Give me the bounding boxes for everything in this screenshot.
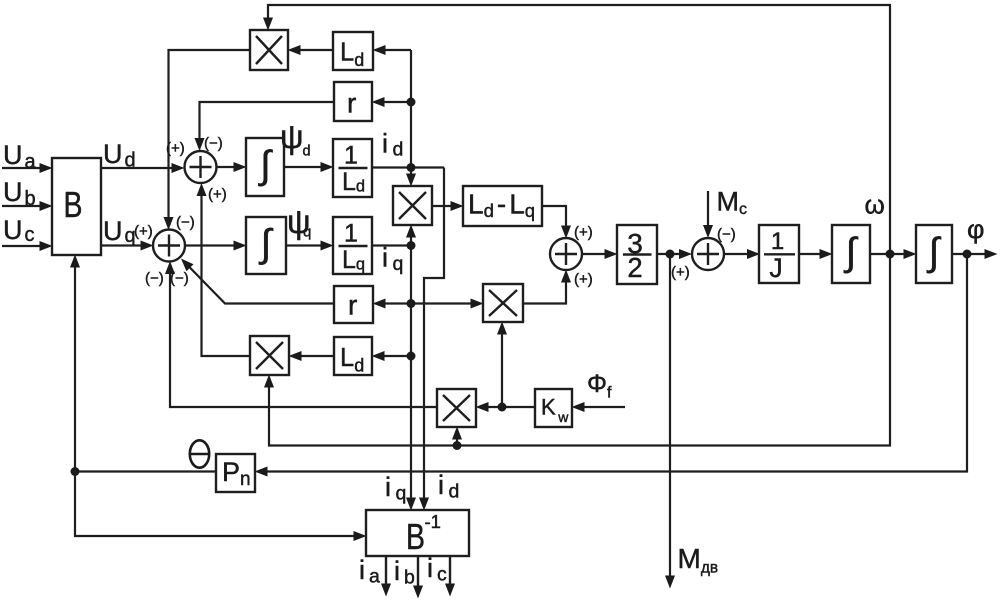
summing junction sum4 bbox=[692, 238, 724, 270]
wire Pn output theta bbox=[75, 470, 216, 472]
svg-text:Uq: Uq bbox=[103, 216, 136, 247]
block Ld minus Lq bbox=[463, 186, 542, 226]
svg-text:r: r bbox=[347, 88, 356, 119]
svg-text:(+): (+) bbox=[574, 224, 593, 241]
multiplier X3 bbox=[483, 284, 523, 322]
svg-text:(−): (−) bbox=[717, 226, 736, 243]
summing junction sum1 bbox=[185, 151, 217, 183]
block r2 bbox=[334, 286, 373, 323]
svg-text:(+): (+) bbox=[166, 140, 185, 157]
block B inverse bbox=[366, 510, 469, 557]
multiplier X4 bbox=[250, 336, 289, 375]
block Pn bbox=[216, 454, 255, 492]
integrator 2 bbox=[246, 217, 286, 274]
wire id 1/Ld output bbox=[372, 166, 444, 168]
svg-text:Uc: Uc bbox=[3, 215, 35, 246]
wire input Ua bbox=[2, 167, 40, 169]
wire 3/2 to sum4 bbox=[658, 253, 680, 255]
svg-text:Φf: Φf bbox=[587, 370, 612, 401]
svg-text:(−): (−) bbox=[145, 270, 164, 287]
svg-text:Ub: Ub bbox=[3, 177, 36, 210]
block 3/2 bbox=[617, 225, 657, 284]
wire input Mc into sum4 bbox=[707, 191, 709, 226]
wire Ld2 to mult4 bbox=[301, 355, 334, 357]
integrator 4 bbox=[916, 225, 952, 283]
svg-text:id: id bbox=[438, 470, 459, 502]
wire omega feedback top bbox=[268, 5, 890, 254]
wire mult5 output to sum2 bottom bbox=[170, 274, 437, 408]
svg-text:ω: ω bbox=[865, 190, 885, 220]
svg-text:r: r bbox=[348, 290, 357, 321]
svg-text:J: J bbox=[769, 253, 782, 283]
wire Binv output ia bbox=[385, 556, 387, 584]
node Kw output branch bbox=[498, 403, 507, 412]
integrator 1 bbox=[246, 138, 284, 196]
wire id down to Binv bbox=[424, 168, 444, 499]
wire mult3 output to sum3 bottom bbox=[523, 282, 566, 304]
svg-text:Mдв: Mдв bbox=[678, 543, 719, 576]
wire Kw to mult5 bbox=[488, 406, 535, 408]
svg-text:(+): (+) bbox=[134, 223, 153, 240]
block Ld lower bbox=[334, 337, 372, 376]
node omega rail mult5 tap bbox=[453, 441, 462, 450]
svg-text:-1: -1 bbox=[425, 511, 441, 532]
wire mult2 to LdLq block bbox=[432, 205, 451, 207]
wire phi feedback to Pn bbox=[267, 254, 967, 472]
svg-text:iq: iq bbox=[382, 243, 403, 275]
wire iq down to Binv bbox=[410, 246, 412, 499]
block B coordinate transform bbox=[52, 158, 101, 255]
multiplier X1 bbox=[250, 30, 288, 70]
svg-text:1: 1 bbox=[344, 142, 358, 170]
wire iq to r2 bbox=[385, 302, 411, 304]
wire id branch up-down rail bbox=[410, 50, 412, 174]
svg-text:id: id bbox=[382, 128, 403, 160]
block 1/Lq bbox=[333, 217, 372, 274]
svg-text:ψd: ψd bbox=[280, 118, 311, 160]
svg-text:Ud: Ud bbox=[103, 139, 136, 172]
wire Ld1 to mult1 bbox=[300, 49, 333, 51]
svg-text:(−): (−) bbox=[204, 135, 223, 152]
wire id to Ld1 bbox=[385, 49, 411, 51]
wire integrator1 to 1/Ld bbox=[285, 166, 321, 168]
wire sum2 to integrator2 bbox=[185, 244, 234, 246]
wire input Uc bbox=[2, 245, 40, 247]
svg-text:(+): (+) bbox=[574, 271, 593, 288]
wire theta down to Binv bbox=[75, 472, 354, 537]
svg-text:1: 1 bbox=[771, 228, 784, 255]
block r1 bbox=[334, 82, 372, 121]
svg-text:ψq: ψq bbox=[287, 203, 311, 241]
wire Kw branch up to mult3 bottom bbox=[501, 334, 503, 407]
wire LdLq to sum3 top bbox=[542, 206, 566, 226]
wire sum3 to 3/2 block bbox=[582, 253, 605, 255]
wire omega feedback bottom rail bbox=[269, 254, 890, 446]
svg-text:(−): (−) bbox=[176, 214, 195, 231]
wire 1/J to integrator3 bbox=[800, 253, 820, 255]
wire mult1 output to sum2 top bbox=[169, 50, 251, 218]
block Kw bbox=[535, 389, 572, 427]
svg-text:(+): (+) bbox=[208, 186, 227, 203]
svg-text:(−): (−) bbox=[170, 270, 189, 287]
summing junction sum3 bbox=[550, 238, 582, 270]
svg-text:B: B bbox=[406, 516, 425, 557]
wire id to r1 bbox=[384, 101, 411, 103]
wire iq to mult3 bbox=[411, 302, 471, 304]
svg-text:φ: φ bbox=[967, 214, 985, 244]
node omega bbox=[886, 250, 895, 259]
svg-text:iq: iq bbox=[385, 472, 406, 504]
wire integrator3 to integrator4 omega bbox=[870, 253, 904, 255]
svg-text:(+): (+) bbox=[671, 264, 690, 281]
wire Ud B to sum1 bbox=[101, 167, 172, 169]
svg-text:Ua: Ua bbox=[3, 140, 37, 173]
node id rail r1 tap bbox=[407, 98, 416, 107]
wire theta up to B bottom bbox=[74, 267, 76, 472]
svg-text:2: 2 bbox=[627, 252, 642, 283]
integrator 3 bbox=[832, 225, 870, 283]
wire iq 1/Lq output bbox=[372, 244, 411, 246]
wire iq to Ld2 bbox=[384, 355, 411, 357]
node iq rail main bbox=[407, 241, 416, 250]
wire r2 output diagonal to sum2 bbox=[190, 267, 334, 303]
node id rail main bbox=[407, 163, 416, 172]
node iq rail r2 tap bbox=[407, 299, 416, 308]
svg-text:Mc: Mc bbox=[717, 187, 748, 219]
svg-text:ic: ic bbox=[427, 553, 447, 585]
node Mdv tap bbox=[666, 250, 675, 259]
svg-text:ia: ia bbox=[359, 555, 380, 587]
wire mult4 output to sum1 bottom bbox=[202, 196, 251, 357]
label theta bbox=[190, 440, 209, 467]
node theta branch bbox=[71, 467, 80, 476]
node iq rail Ld2 tap bbox=[407, 352, 416, 361]
wire input Ub bbox=[2, 205, 40, 207]
wire sum4 to 1/J bbox=[724, 253, 748, 255]
wire omega rail up to mult5 bbox=[456, 439, 458, 446]
multiplier X5 bbox=[437, 389, 476, 427]
wire Mdv down output bbox=[669, 254, 671, 576]
wire Uq B to sum2 bbox=[101, 244, 141, 246]
svg-text:B: B bbox=[64, 184, 83, 225]
wire Binv output ib bbox=[417, 556, 419, 586]
wire input Phi f bbox=[584, 406, 625, 408]
svg-text:1: 1 bbox=[344, 220, 358, 248]
wire r1 output to sum1 top bbox=[200, 102, 335, 139]
wire integrator4 to output phi bbox=[952, 253, 985, 255]
block Ld upper bbox=[333, 32, 373, 70]
wire Binv output ic bbox=[449, 556, 451, 584]
node phi bbox=[963, 250, 972, 259]
summing junction sum2 bbox=[153, 230, 185, 262]
block 1/Ld bbox=[333, 139, 372, 197]
wire integrator2 to 1/Lq bbox=[286, 244, 321, 246]
multiplier X2 bbox=[393, 186, 432, 225]
block 1/J bbox=[759, 225, 799, 283]
wire sum1 to integrator1 bbox=[217, 166, 235, 168]
svg-text:ib: ib bbox=[394, 556, 415, 588]
wire iq up into mult2 bbox=[410, 237, 412, 246]
